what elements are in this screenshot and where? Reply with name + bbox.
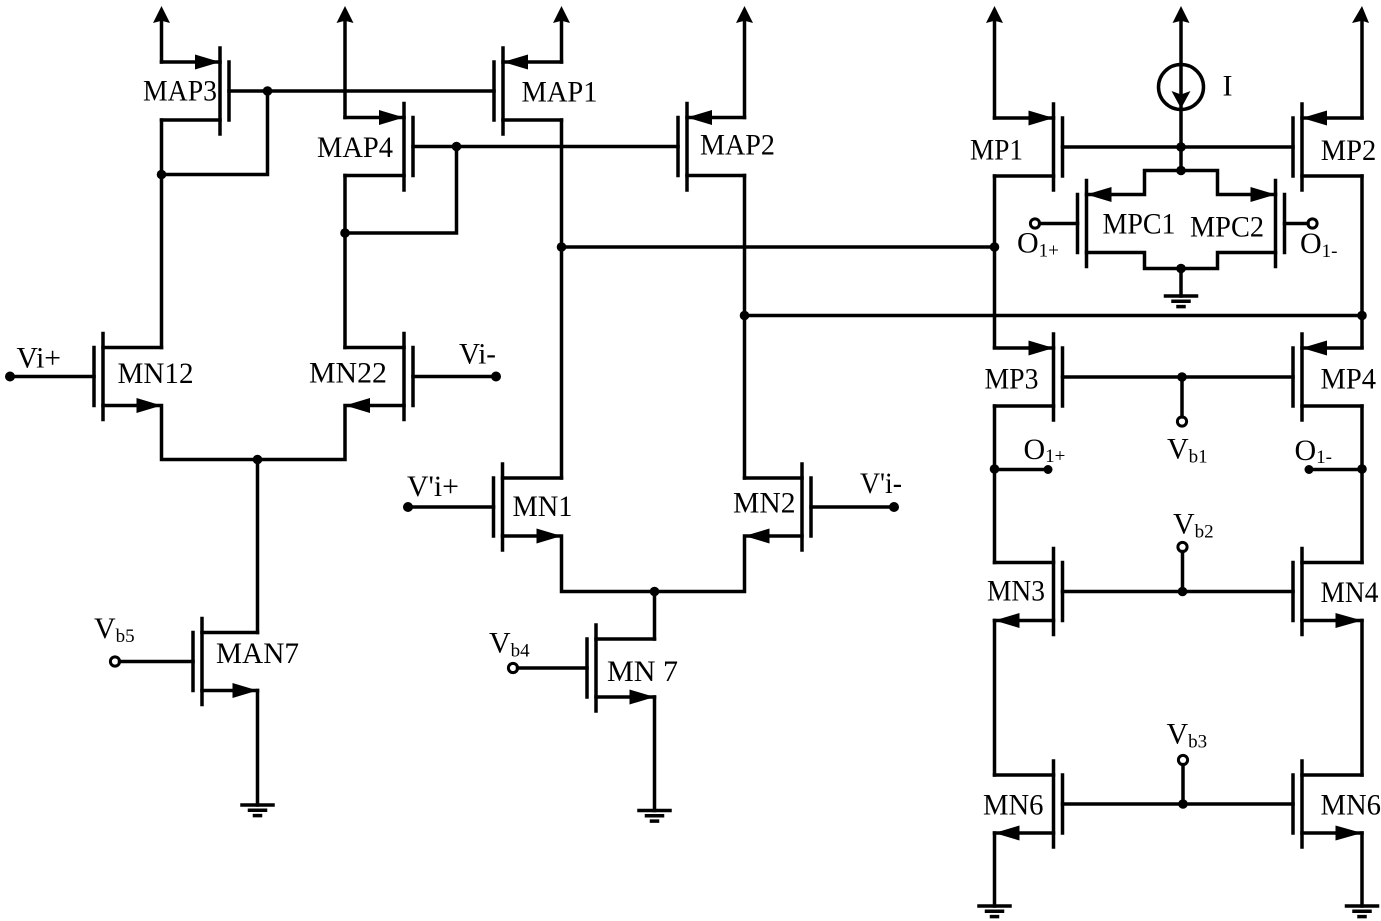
node O1- junction (1357, 464, 1367, 474)
transistor MN4 (NMOS cascode) (1293, 549, 1379, 635)
svg-text:Vb2: Vb2 (1173, 508, 1214, 543)
wire MN3 source to MN6 drain (left) (993, 621, 997, 776)
node Vb3 junction (1178, 799, 1188, 809)
transistor MN1 (NMOS) (408, 464, 655, 592)
VDD arrow above MAP4 (337, 6, 354, 118)
wire MP3-MP4 gate line (1063, 375, 1294, 379)
svg-text:MAN7: MAN7 (216, 637, 299, 670)
node MPC1-MPC2 source junction (1176, 166, 1186, 176)
svg-text:Vb5: Vb5 (94, 612, 135, 647)
svg-text:MN 7: MN 7 (607, 655, 678, 688)
transistor MN7 (NMOS tail current source) (518, 625, 679, 711)
terminal V'i- (860, 467, 902, 512)
node MAP3 drain junction (157, 170, 167, 180)
svg-text:MPC1: MPC1 (1103, 208, 1176, 241)
wire first-stage output to MP1 drain (cascode node) (562, 245, 995, 249)
wire MAP3 gate-drain feedback (162, 91, 268, 175)
ground under MN6 right (1347, 833, 1378, 917)
wire MP3 drain to MN3 drain (993, 406, 997, 563)
svg-text:MN6: MN6 (983, 789, 1044, 822)
node MPC1-MPC2 drain junction (1176, 264, 1186, 274)
VDD arrow above MAP2 (736, 6, 753, 118)
terminal O1- (MPC2 gate) (1300, 219, 1338, 262)
transistor MAP3 (PMOS) (143, 48, 268, 134)
node MAP3 gate junction (263, 86, 273, 96)
wire MN3-MN4 gate line (1063, 590, 1294, 594)
wire first-stage output to MP2 drain (cascode node) (745, 314, 1363, 318)
transistor MP4 (PMOS cascode) (1293, 334, 1376, 420)
wire MAP4 drain to MN22 drain (343, 176, 347, 348)
svg-text:MP1: MP1 (970, 134, 1023, 167)
transistor MN22 (NMOS) (258, 334, 497, 460)
wire MP1-MP2 gate line (1063, 145, 1294, 149)
VDD arrow above MAP1 (553, 6, 570, 62)
wire MAP1 drain to MN1 drain (560, 120, 564, 478)
node MAP1 drain junction (557, 242, 567, 252)
transistor MP1 (PMOS cascode) (970, 104, 1063, 190)
terminal Vb5 (94, 612, 135, 666)
svg-text:O1+: O1+ (1024, 433, 1066, 467)
transistor MP3 (PMOS cascode) (985, 334, 1063, 420)
terminal O1+ (output) (995, 433, 1066, 474)
svg-text:MAP4: MAP4 (317, 131, 393, 164)
node O1+ junction (990, 464, 1000, 474)
svg-text:Vb4: Vb4 (489, 627, 530, 662)
node MAP4 gate junction (452, 142, 462, 152)
svg-text:O1+: O1+ (1017, 227, 1059, 262)
terminal Vb3 (1167, 718, 1208, 805)
transistor MN3 (NMOS cascode) (987, 549, 1063, 635)
svg-text:O1-: O1- (1300, 227, 1338, 262)
current source I (1159, 65, 1233, 110)
svg-text:MP4: MP4 (1321, 363, 1377, 396)
transistor MN2 (NMOS) (655, 464, 895, 592)
svg-text:MAP3: MAP3 (143, 75, 217, 108)
svg-text:MPC2: MPC2 (1190, 211, 1264, 244)
terminal O1- (output) (1295, 434, 1363, 474)
terminal Vi+ (5, 342, 61, 382)
ground under MAN7 (242, 691, 273, 816)
transistor MAP1 (PMOS) (494, 48, 598, 134)
node MAP2 drain junction (740, 311, 750, 321)
wire MP2 drain to MP4 source (1360, 176, 1364, 348)
svg-text:V'i+: V'i+ (407, 470, 459, 503)
wire MAP4 gate-drain feedback (345, 147, 457, 234)
svg-text:Vi-: Vi- (459, 338, 496, 371)
VDD arrow above MAP3 (153, 6, 170, 62)
ground under MN7 (639, 697, 670, 821)
ground under MPC pair (1166, 269, 1197, 307)
svg-text:I: I (1223, 70, 1233, 103)
svg-text:MN22: MN22 (309, 357, 387, 390)
terminal O1+ (MPC1 gate) (1017, 219, 1059, 262)
wire MAP3 drain to MN12 drain (160, 120, 164, 348)
svg-text:MAP2: MAP2 (700, 129, 775, 162)
transistor MN6 right (NMOS) (1293, 761, 1381, 847)
svg-text:MN1: MN1 (513, 490, 573, 523)
terminal Vb2 (1173, 508, 1214, 592)
svg-text:Vi+: Vi+ (17, 342, 62, 375)
svg-text:V'i-: V'i- (860, 467, 902, 500)
terminal Vb4 (489, 627, 530, 673)
svg-text:Vb1: Vb1 (1167, 433, 1208, 468)
svg-text:MN6: MN6 (1321, 789, 1381, 822)
node MP1 drain junction (990, 242, 1000, 252)
VDD arrow above current source I (1173, 6, 1190, 23)
wire MN6 gate line (1063, 802, 1294, 806)
wire MN4 source to MN6 drain (right) (1360, 621, 1364, 776)
transistor MAP4 (PMOS) (317, 104, 457, 191)
VDD arrow above MP1 (986, 6, 1003, 118)
svg-text:MN12: MN12 (118, 357, 194, 390)
wire middle tail to MN7 drain (653, 592, 657, 640)
node MAP4 drain junction (340, 228, 350, 238)
transistor MAP2 (PMOS) (678, 104, 775, 191)
svg-text:MN3: MN3 (987, 575, 1045, 608)
transistor MPC1 (PMOS cross-coupled) (1040, 171, 1181, 269)
wire left tail to MAN7 drain (256, 460, 260, 633)
svg-text:MN4: MN4 (1321, 576, 1379, 609)
terminal V'i+ (403, 470, 459, 512)
node Vb2 junction (1178, 587, 1188, 597)
wire current source to MPC source node (1179, 22, 1183, 171)
svg-text:MP3: MP3 (985, 363, 1039, 396)
wire MAP2 drain to MN2 drain (743, 176, 747, 479)
svg-text:Vb3: Vb3 (1167, 718, 1208, 753)
svg-text:MP2: MP2 (1321, 134, 1377, 167)
wire MP1 drain to MP3 source (993, 176, 997, 348)
node Vb1 junction (1177, 372, 1187, 382)
node MP1-MP2 gate bias junction (1176, 142, 1186, 152)
transistor MN6 left (NMOS) (983, 761, 1063, 847)
VDD arrow above MP2 (1352, 6, 1369, 118)
transistor MPC2 (PMOS cross-coupled) (1181, 171, 1308, 269)
node middle tail junction (650, 587, 660, 597)
ground under MN6 left (979, 833, 1010, 917)
svg-text:MAP1: MAP1 (522, 76, 598, 109)
terminal Vi- (459, 338, 501, 382)
transistor MAN7 (NMOS tail current source) (120, 619, 300, 705)
wire MAP3 gate to MAP1 gate (268, 89, 495, 93)
node left tail junction (253, 455, 263, 465)
node MP2 drain junction (1357, 311, 1367, 321)
transistor MN12 (NMOS) (10, 334, 258, 460)
transistor MP2 (PMOS cascode) (1293, 104, 1376, 190)
svg-text:O1-: O1- (1295, 434, 1333, 468)
terminal Vb1 (1167, 377, 1208, 468)
svg-text:MN2: MN2 (733, 487, 796, 520)
wire MP4 drain to MN4 drain (1360, 406, 1364, 563)
wire MAP4 gate to MAP2 gate (457, 145, 679, 149)
